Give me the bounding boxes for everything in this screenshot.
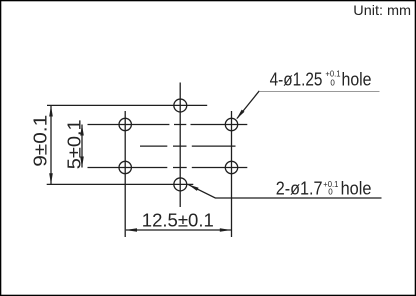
arrowhead 5±0.1 bottom (80, 157, 84, 168)
arrowhead leader 4-ø1.25 (236, 110, 244, 120)
centerline row through top ø1.7 hole (47, 104, 207, 106)
centerline row through lower ø1.25 holes (88, 167, 248, 169)
centerline column center (vertical through ø1.7 holes) (179, 83, 181, 208)
centerline row middle (140, 145, 236, 147)
centerline row through upper ø1.25 holes (88, 124, 248, 126)
centerline row through bottom ø1.7 hole (47, 183, 194, 185)
hole lower-right ø1.25 (225, 161, 237, 173)
svg-text:hole: hole (342, 69, 372, 89)
arrowhead leader 2-ø1.7 (188, 184, 199, 191)
dimension line 9±0.1 (50, 105, 52, 184)
hole lower-left ø1.25 (119, 161, 131, 173)
arrowhead 12.5±0.1 left (126, 228, 137, 232)
centerline column right (vertical through right holes) (231, 111, 233, 237)
hole upper-right ø1.25 (225, 118, 237, 130)
hole bottom ø1.7 (174, 178, 187, 191)
dimension line 5±0.1 (81, 125, 83, 168)
svg-text:12.5±0.1: 12.5±0.1 (142, 210, 214, 231)
svg-text:5±0.1: 5±0.1 (63, 119, 84, 169)
arrowhead 12.5±0.1 right (220, 228, 231, 232)
leader underline for 4-ø1.25 label (light) (259, 91, 379, 93)
label 2-ø1.7 hole (276, 179, 372, 199)
arrowhead 9±0.1 top (49, 105, 53, 116)
svg-text:0: 0 (330, 78, 335, 87)
svg-text:0: 0 (328, 187, 333, 196)
centerline column left (vertical through left holes) (124, 111, 126, 237)
hole upper-left ø1.25 (119, 118, 131, 130)
label 4-ø1.25 hole (270, 69, 372, 89)
dimension line 12.5±0.1 (126, 229, 231, 231)
arrowhead 5±0.1 top (80, 125, 84, 136)
leader line for 2-ø1.7 hole (189, 185, 382, 198)
svg-text:Unit: mm: Unit: mm (353, 2, 411, 18)
svg-text:2-ø1.7: 2-ø1.7 (276, 179, 323, 199)
svg-text:4-ø1.25: 4-ø1.25 (270, 69, 323, 89)
svg-text:9±0.1: 9±0.1 (30, 115, 51, 167)
leader line for 4-ø1.25 holes (237, 91, 259, 119)
hole top ø1.7 (174, 99, 187, 112)
svg-text:hole: hole (341, 179, 372, 199)
arrowhead 9±0.1 bottom (49, 173, 53, 184)
svg-text:+0.1: +0.1 (325, 69, 341, 78)
